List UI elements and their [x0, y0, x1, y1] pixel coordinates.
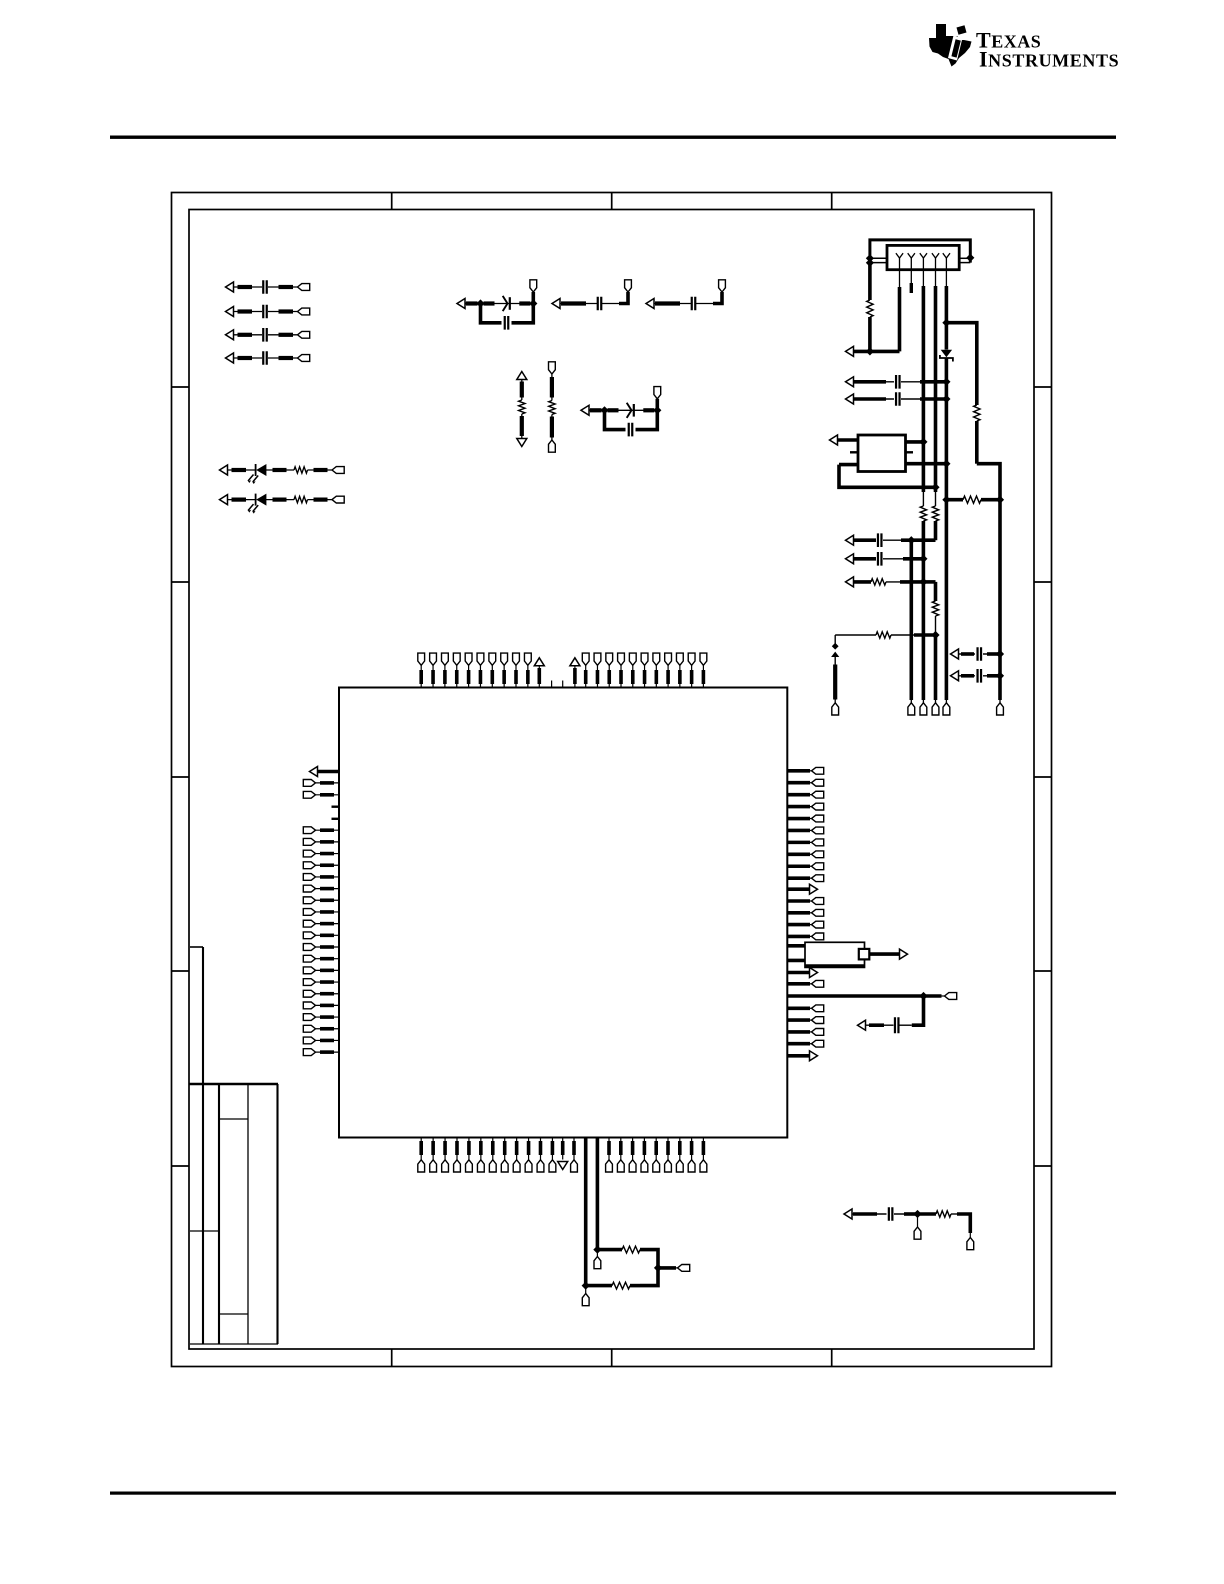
- off-page tag C5: [530, 280, 537, 292]
- wire C9 left: [854, 381, 895, 383]
- U1 top pin tags group 2: [582, 653, 707, 687]
- U1 left pin tags upper: [303, 780, 339, 799]
- wire C8 to tag: [655, 399, 659, 411]
- wire right column down: [998, 500, 1002, 700]
- wire bus P4 vertical: [935, 270, 937, 506]
- output arrow U1 right pin 11: [787, 884, 817, 894]
- junction long net: [919, 992, 927, 1000]
- connector J1 body: [887, 245, 959, 269]
- title block area lines bottom-left: [190, 947, 279, 1344]
- schematic sheet inner border: [189, 210, 1034, 1350]
- input port arrow row 1: [226, 282, 234, 292]
- border zone ticks bottom: [392, 1349, 832, 1367]
- wire C10 left: [854, 398, 895, 400]
- junction C12 bus P3: [919, 555, 927, 563]
- input port arrow C11: [846, 535, 854, 545]
- wire to tag row 2: [268, 311, 298, 313]
- off-page tag bottom right end: [967, 1233, 974, 1250]
- resistor R14: [612, 1282, 630, 1289]
- wire LED row 1: [228, 469, 256, 471]
- wire with net label row 1: [234, 286, 263, 288]
- wire LED to resistor row 2: [266, 499, 294, 501]
- net arrow row4: [831, 652, 839, 657]
- off-page tag above resistor R4: [549, 362, 556, 374]
- diode D3 zener: [940, 350, 953, 362]
- wire U1 bottom long net A: [584, 1138, 588, 1286]
- LED D1: [248, 464, 266, 484]
- capacitor C15: [866, 1017, 912, 1033]
- U1 top NC stubs: [552, 681, 563, 688]
- input port arrow row 4: [226, 353, 234, 363]
- resistor R3 vertical: [519, 380, 525, 439]
- wire to tag row 1: [268, 286, 298, 288]
- schematic sheet outer border: [172, 193, 1052, 1367]
- wire C6 to tag: [602, 292, 629, 304]
- wire bus P5 vertical: [945, 270, 947, 323]
- wire bottom right input: [852, 1213, 887, 1215]
- junction P5 regulator out2: [942, 460, 950, 468]
- U1 right pin tags group 1: [787, 767, 823, 881]
- off-page tag long net: [945, 993, 957, 1000]
- wire to tag row 3: [268, 334, 298, 336]
- connector J1 outer loop wire: [870, 240, 970, 264]
- wire C14 right: [983, 675, 1000, 677]
- wire pin2 stub: [910, 270, 912, 293]
- U1 left NC stubs: [332, 807, 340, 819]
- input port arrow regulator: [830, 435, 838, 445]
- junction left bus: [866, 347, 874, 355]
- wire C9 right: [901, 381, 946, 383]
- wire C14 left: [959, 675, 976, 677]
- off-page tag row 4: [298, 355, 310, 362]
- junction regulator output1: [919, 438, 927, 446]
- capacitor C8b: [629, 423, 633, 437]
- input port arrow C9: [846, 377, 854, 387]
- off-page tag C8: [654, 387, 661, 399]
- capacitor C14: [978, 669, 982, 683]
- LED D2: [248, 494, 266, 514]
- resistor R7 horizontal: [946, 496, 1000, 503]
- junction output node: [654, 1264, 662, 1272]
- page top rule: [110, 136, 1116, 139]
- wire C10 right: [901, 398, 946, 400]
- microcontroller U1 body: [339, 688, 787, 1138]
- power arrow above resistor R3: [517, 372, 527, 380]
- border zone ticks left: [172, 387, 190, 1166]
- input port arrow C12: [846, 554, 854, 564]
- wire P5 to diode: [945, 323, 949, 350]
- U1 bottom tag single: [571, 1138, 578, 1173]
- input port arrow LED row 2: [220, 495, 228, 505]
- resistor R11: [871, 579, 886, 585]
- resistor R9 on bus P4: [932, 506, 938, 521]
- power arrow U1 top pin A: [534, 658, 544, 688]
- wire R11 left: [854, 580, 872, 584]
- input port arrow C7: [646, 299, 654, 309]
- wire bus P4 to cap row: [934, 521, 938, 540]
- wire bus P3 vertical: [922, 270, 924, 506]
- wire LED to resistor row 1: [266, 469, 294, 471]
- junction right column resistor row: [996, 496, 1004, 504]
- U1 right pin tags group 3: [787, 1005, 823, 1047]
- wire left bus to junction: [868, 317, 872, 351]
- capacitor C7: [692, 297, 696, 311]
- wire C12 right: [883, 558, 923, 560]
- wire C5 input: [465, 302, 481, 304]
- resistor R15: [936, 1211, 951, 1217]
- wire crystal output: [869, 952, 899, 956]
- capacitor C13: [978, 647, 982, 661]
- wire regulator output1: [905, 440, 923, 444]
- wire right branch jog: [977, 421, 1000, 500]
- wire with net label row 2: [234, 311, 263, 313]
- U1 right pin tags group 2: [787, 898, 823, 940]
- input port arrow R11 row: [846, 577, 854, 587]
- wire bus P3 lower: [922, 521, 926, 700]
- wire LED row 2: [228, 499, 256, 501]
- wire with net label row 3: [234, 334, 263, 336]
- input port arrow row 2: [226, 307, 234, 317]
- junction bottom right: [913, 1210, 921, 1218]
- wire C13 right: [983, 653, 1000, 655]
- resistor R1: [294, 467, 308, 473]
- input port arrow LED row 1: [220, 465, 228, 475]
- capacitor C12: [878, 552, 882, 566]
- junction C8 left: [600, 406, 608, 414]
- ground arrow U1 bottom: [558, 1138, 568, 1170]
- wire C7 input: [654, 303, 692, 305]
- wire row4 right: [891, 634, 936, 636]
- wire U1 bottom long net B: [596, 1138, 600, 1250]
- junction right column cap C: [996, 650, 1004, 658]
- junction J1 left: [866, 254, 874, 267]
- capacitor C16: [889, 1207, 893, 1221]
- wire bus P4 lower segment: [934, 582, 938, 601]
- U1 bottom pin tags group 1: [418, 1138, 556, 1173]
- wire resistor to tag row 2: [308, 499, 333, 501]
- input port arrow C8: [581, 405, 589, 415]
- capacitor C5b: [505, 316, 509, 330]
- junction J1 right: [966, 254, 974, 262]
- wire long net branch down: [912, 996, 924, 1025]
- connector J1 pins: [896, 253, 950, 270]
- capacitor C11: [878, 533, 882, 547]
- wire regulator output2: [905, 462, 946, 466]
- wire regulator ground loop: [839, 465, 936, 488]
- wire C11 right: [883, 539, 936, 541]
- capacitor C9: [896, 375, 900, 389]
- wire R15 to corner: [951, 1214, 970, 1233]
- wire row4 stub down to tag: [834, 657, 836, 700]
- wire R13 to corner: [640, 1250, 658, 1268]
- resistor R2: [294, 496, 308, 502]
- page bottom rule: [110, 1492, 1116, 1495]
- power rail tags bottom: [832, 700, 1004, 715]
- input port arrow C6: [552, 299, 560, 309]
- capacitor C6: [598, 297, 602, 311]
- capacitor C3: [263, 328, 267, 342]
- input port arrow C13: [951, 649, 959, 659]
- wire C8 input: [589, 409, 605, 411]
- capacitor C2: [263, 305, 267, 319]
- junction ground loop: [931, 483, 939, 491]
- junction row4 stub: [832, 643, 839, 650]
- input port arrow power left: [846, 346, 854, 356]
- wire bus P4 to junction row4: [935, 616, 937, 700]
- wire bus P2 down: [909, 540, 913, 700]
- input port arrow row 3: [226, 330, 234, 340]
- junction C5 right: [529, 299, 537, 307]
- capacitor C10: [896, 392, 900, 406]
- off-page tag below resistor R4: [549, 440, 556, 452]
- wire J1 right stubs: [959, 258, 970, 262]
- wire P5 below diode: [945, 358, 949, 700]
- capacitor C8a polarized: [627, 403, 634, 418]
- resistor R10 on bus P4 lower: [932, 601, 938, 616]
- svg-text:INSTRUMENTS: INSTRUMENTS: [979, 47, 1119, 72]
- wire row4 horizontal: [835, 634, 876, 636]
- wire output node down to R14: [640, 1268, 658, 1286]
- border zone ticks right: [1034, 387, 1052, 1166]
- wire branch to right column: [946, 323, 976, 405]
- wire R11 right: [886, 581, 936, 583]
- wire to tag row 4: [268, 357, 298, 359]
- wire C5 top branch: [481, 303, 534, 305]
- wire U1 right long net: [787, 994, 944, 998]
- junction C5 left: [476, 299, 484, 307]
- junction P5 resistor row: [942, 496, 950, 504]
- U1 right pin tag 19: [787, 980, 823, 987]
- arrow below resistor R3: [517, 439, 527, 447]
- off-page tag row 3: [298, 331, 310, 338]
- wire C12 left: [854, 558, 877, 560]
- wire regulator input: [838, 438, 859, 442]
- off-page tag LED row 2: [332, 496, 344, 503]
- wire C5 to tag: [531, 292, 535, 304]
- wire left bus down from J1: [868, 263, 872, 300]
- junction net B: [593, 1246, 601, 1254]
- border zone ticks top: [392, 193, 832, 210]
- wire pin1 riser: [898, 270, 902, 352]
- Texas Instruments logo mark: [929, 24, 972, 67]
- power arrow U1 top pin B: [570, 658, 580, 688]
- junction C8 right: [653, 406, 661, 414]
- resistor R5 vertical on left bus: [867, 300, 873, 317]
- resistor R4 vertical: [549, 374, 555, 440]
- off-page tag C6: [625, 280, 632, 292]
- wire C8 bottom branch: [605, 410, 658, 429]
- wire C5 bottom branch: [481, 304, 534, 323]
- input port arrow C10: [846, 394, 854, 404]
- junction net A: [582, 1282, 590, 1290]
- wire net B to resistor: [597, 1248, 622, 1252]
- wire C11 left: [854, 539, 877, 541]
- crystal Y1: [787, 942, 869, 967]
- resistor R12: [876, 632, 891, 638]
- resistor R8 on bus P3: [920, 506, 926, 521]
- output arrow U1 right pin 24: [787, 1051, 817, 1061]
- wire C8 top branch: [605, 409, 658, 411]
- U1 top pin tags group 1: [418, 653, 531, 687]
- wire C6 input: [560, 303, 598, 305]
- voltage regulator U2: [850, 435, 913, 472]
- off-page tag net A: [582, 1286, 589, 1306]
- wire R14 to junction A: [586, 1284, 640, 1288]
- resistor R6 on right branch: [974, 405, 980, 421]
- wire C7 to tag: [696, 292, 723, 304]
- U1 left pin tags main: [303, 827, 339, 1056]
- junction P5 branch: [942, 319, 950, 327]
- wire junction to R15: [918, 1212, 937, 1216]
- capacitor C4: [263, 351, 267, 365]
- wire C13 left: [959, 653, 976, 655]
- wire power horizontal to pin1: [854, 350, 900, 354]
- junction P5 cap row A: [942, 378, 950, 386]
- junction row4 bus P4: [931, 631, 939, 639]
- input port arrow C5: [457, 299, 465, 309]
- capacitor C1: [263, 280, 267, 294]
- off-page tag output: [678, 1265, 690, 1272]
- output arrow U1 right pin 18: [787, 968, 817, 978]
- wire with net label row 4: [234, 357, 263, 359]
- input port arrow C15: [858, 1020, 866, 1030]
- off-page tag C7: [719, 280, 726, 292]
- junction C11 bus P2: [907, 536, 915, 544]
- capacitor C5a polarized: [503, 296, 510, 311]
- junction right column cap D: [996, 672, 1004, 680]
- input port arrow U1 left pin 1: [310, 767, 340, 777]
- off-page tag row 2: [298, 308, 310, 315]
- off-page tag net B: [594, 1250, 601, 1269]
- junction R11 bus P3: [919, 578, 927, 586]
- output arrow crystal: [900, 949, 908, 959]
- wire row4 left stub: [834, 635, 836, 644]
- off-page tag below junction: [914, 1214, 921, 1239]
- resistor R13: [622, 1246, 640, 1253]
- U1 bottom pin tags group 2: [606, 1138, 707, 1173]
- wire resistor to tag row 1: [308, 469, 333, 471]
- input port arrow bottom right: [844, 1209, 852, 1219]
- junction P5 cap row B: [942, 395, 950, 403]
- off-page tag row 1: [298, 284, 310, 291]
- off-page tag LED row 1: [332, 467, 344, 474]
- wire C16 to junction: [894, 1213, 918, 1215]
- wire output node to tag: [658, 1266, 678, 1270]
- wire J1 left stubs: [870, 258, 887, 262]
- input port arrow C14: [951, 671, 959, 681]
